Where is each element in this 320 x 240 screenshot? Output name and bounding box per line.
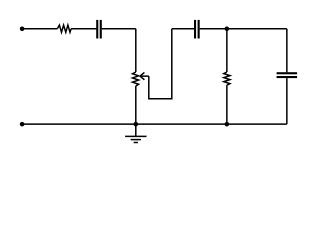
wire: C1 to top corner of potentiometer branch [102,28,136,30]
wire: wiper to C2 branch (down, right, up) [149,29,172,99]
wire: input terminal to R1 [22,28,57,30]
wire: node down to R3 [226,29,228,72]
resistor R1 (horizontal) [57,25,71,32]
node: input terminal (top left) [20,27,25,32]
wire: C2 to output node and to right branch [200,28,287,30]
wire: R1 to C1 [71,28,96,30]
node: junction dot at ground tap [134,122,139,127]
resistor R3 (vertical) [224,72,230,85]
node: junction dot bottom right [225,122,230,127]
potentiometer wiper arrow [140,72,149,79]
node: bottom left terminal [20,122,25,127]
wire: C3 to bottom rail [286,78,288,124]
wire: R3 to bottom rail [226,85,228,124]
wire: pot bottom lead to bottom rail [135,86,137,124]
capacitor C1 (series, vertical plates) [96,20,102,39]
ground symbol [125,124,146,142]
wire: wiper branch top to C2 [172,28,194,30]
wire: vertical down to potentiometer [135,29,137,72]
node: junction dot top (output node) [225,27,230,32]
capacitor C3 (shunt, horizontal plates) [277,72,298,78]
potentiometer R2 body (vertical zigzag) [133,72,139,86]
wire: bottom rail [22,123,287,125]
wire: top right corner down to C3 [286,29,288,73]
capacitor C2 (series, vertical plates) [194,20,200,39]
